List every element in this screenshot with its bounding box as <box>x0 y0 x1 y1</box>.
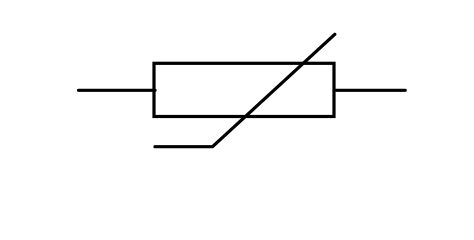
wire right lead <box>334 89 405 92</box>
thermistor diagonal stroke <box>155 34 335 146</box>
thermistor body <box>154 63 334 116</box>
wire left lead <box>79 89 155 92</box>
